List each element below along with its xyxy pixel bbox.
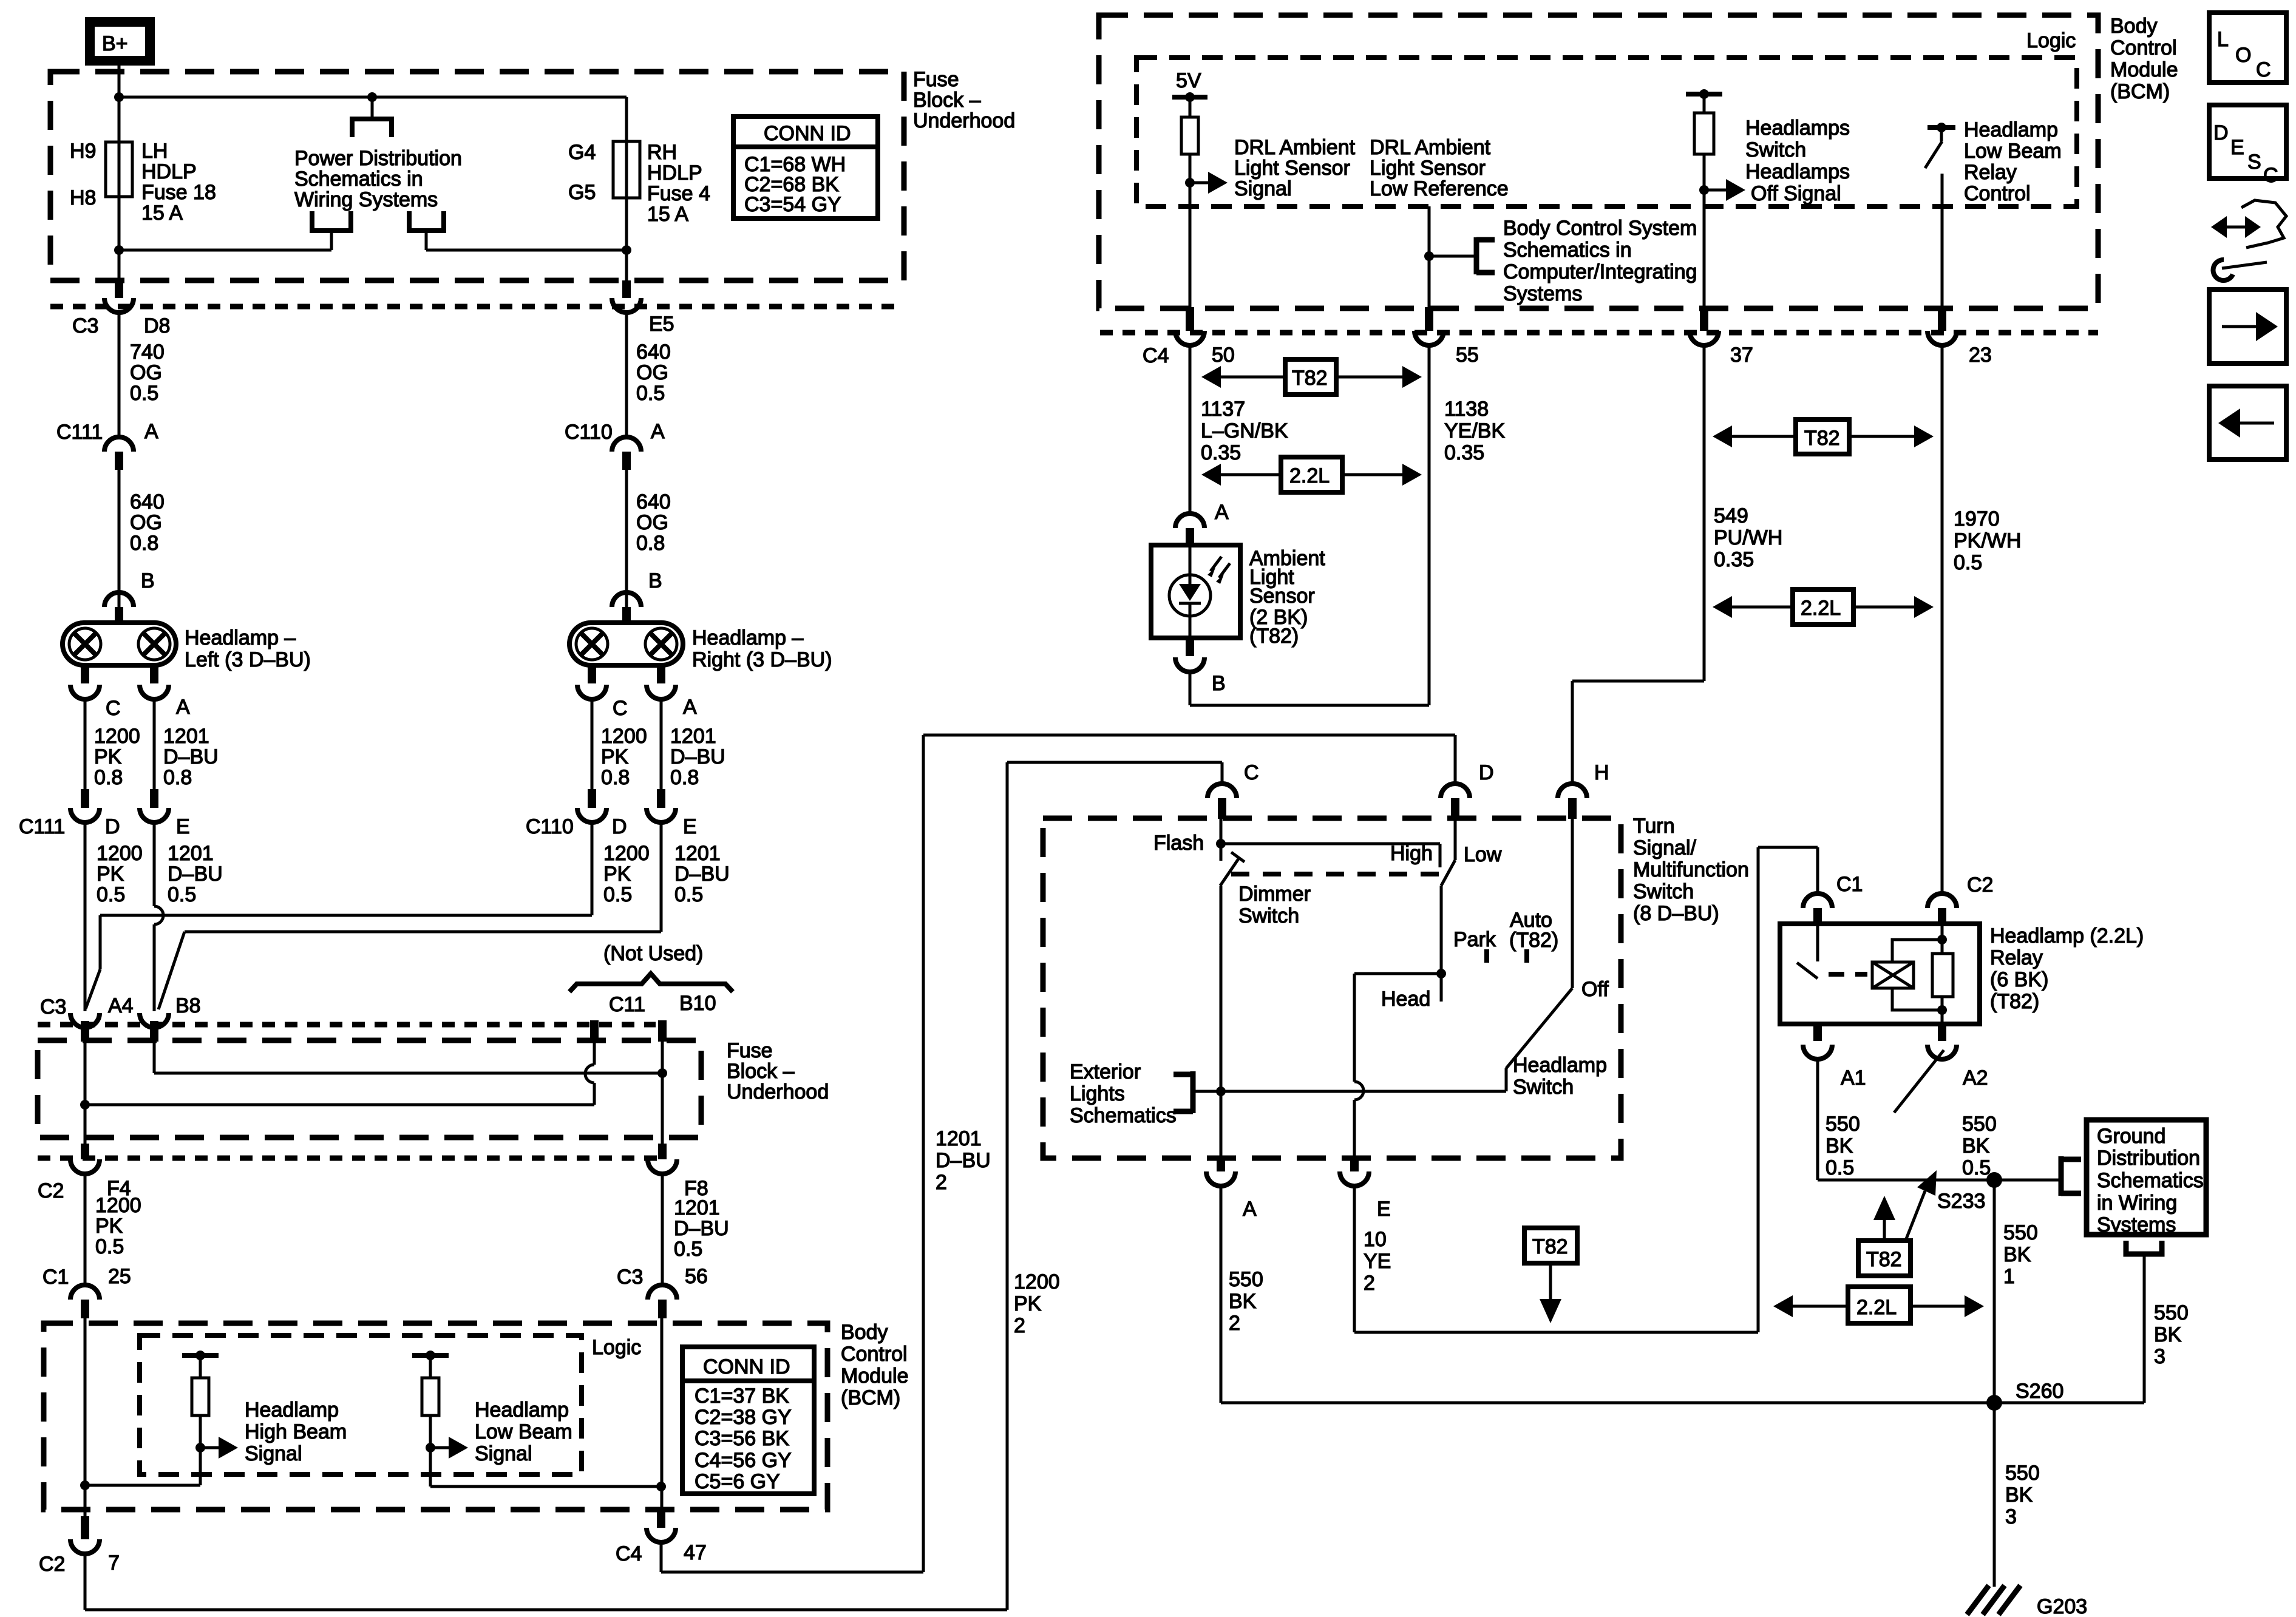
connector A2 bbox=[1927, 1024, 1988, 1090]
svg-text:YE: YE bbox=[1364, 1250, 1391, 1273]
node 56 wire tie bbox=[656, 1482, 666, 1491]
svg-text:Signal: Signal bbox=[245, 1442, 302, 1465]
node B10 stub bbox=[657, 1068, 667, 1078]
svg-text:1201: 1201 bbox=[163, 725, 209, 748]
linkage dimmer to selector bbox=[1231, 872, 1439, 876]
connector A1 bbox=[1803, 1024, 1866, 1090]
svg-text:A: A bbox=[1243, 1198, 1257, 1221]
T82 range symbol wires 37-23 bbox=[1713, 419, 1934, 454]
svg-text:Logic: Logic bbox=[2026, 29, 2076, 52]
svg-text:37: 37 bbox=[1730, 344, 1753, 367]
svg-text:(6 BK): (6 BK) bbox=[1990, 968, 2048, 991]
svg-text:C3=54 GY: C3=54 GY bbox=[744, 193, 841, 216]
svg-text:S260: S260 bbox=[2016, 1380, 2063, 1403]
wire 740 OG 0.5 bbox=[118, 313, 121, 438]
label headlamps switch headlamps off signal bbox=[1745, 117, 1850, 205]
wire exterior lights line to off blade bbox=[1221, 1090, 1506, 1093]
fuse block underhood box bbox=[50, 72, 904, 280]
svg-text:PK: PK bbox=[97, 863, 124, 886]
dotted connector face row C2 F4 F8 bbox=[38, 1156, 659, 1161]
connector C1 25 bbox=[42, 1265, 131, 1318]
svg-text:1970: 1970 bbox=[1954, 507, 2000, 531]
svg-text:Exterior: Exterior bbox=[1070, 1060, 1141, 1083]
headlamp left bbox=[63, 623, 176, 665]
svg-text:E: E bbox=[2230, 136, 2244, 159]
wire RH D down bbox=[591, 822, 594, 915]
label 549 PU/WH 0.35 bbox=[1714, 504, 1782, 571]
svg-text:C3: C3 bbox=[40, 995, 66, 1019]
connector C111 A bbox=[56, 420, 158, 470]
svg-text:0.35: 0.35 bbox=[1714, 548, 1754, 571]
power distribution bottom-left bracket bbox=[312, 211, 351, 250]
label 1201 D-BU 2 bbox=[936, 1127, 991, 1194]
svg-text:550: 550 bbox=[1962, 1113, 1997, 1136]
label 550 BK 1 bbox=[2003, 1221, 2038, 1288]
svg-text:D–BU: D–BU bbox=[168, 863, 223, 886]
svg-text:T82: T82 bbox=[1292, 367, 1328, 390]
connector C3 D8 bbox=[72, 280, 170, 337]
svg-text:Light Sensor: Light Sensor bbox=[1370, 157, 1486, 180]
svg-text:Signal: Signal bbox=[475, 1442, 532, 1465]
svg-text:Headlamp –: Headlamp – bbox=[185, 626, 296, 649]
2.2L range symbol bottom bbox=[1773, 1287, 1984, 1323]
svg-text:640: 640 bbox=[636, 341, 671, 364]
label headlamp right bbox=[692, 626, 832, 671]
wire B8 to B10 stub bbox=[154, 1042, 662, 1073]
wire RH E down bbox=[660, 822, 663, 932]
svg-text:1: 1 bbox=[2003, 1265, 2015, 1288]
svg-text:Control: Control bbox=[2110, 36, 2177, 59]
label 10 YE 2 bbox=[1364, 1228, 1391, 1295]
svg-text:0.35: 0.35 bbox=[1444, 441, 1484, 464]
svg-text:Low Beam: Low Beam bbox=[1964, 140, 2062, 163]
relay linkage dashes bbox=[1829, 972, 1867, 977]
svg-text:1201: 1201 bbox=[936, 1127, 982, 1150]
connector E bbox=[1340, 1158, 1391, 1221]
svg-text:Body Control System: Body Control System bbox=[1503, 217, 1697, 240]
park contact tick bbox=[1453, 928, 1496, 963]
svg-text:Block –: Block – bbox=[913, 89, 981, 112]
svg-text:A1: A1 bbox=[1841, 1066, 1866, 1090]
svg-text:740: 740 bbox=[130, 341, 165, 364]
wire 640 OG 0.5 right bbox=[625, 313, 628, 438]
svg-text:Headlamp: Headlamp bbox=[245, 1398, 339, 1422]
svg-text:0.5: 0.5 bbox=[168, 883, 196, 906]
wire 1200 PK 0.5 to C1 25 bbox=[84, 1174, 87, 1286]
connector F8 bbox=[648, 1144, 708, 1200]
head contact stub bbox=[1381, 974, 1441, 1011]
dotted connector face row BCM top bbox=[1100, 330, 2098, 336]
svg-text:PK/WH: PK/WH bbox=[1954, 529, 2021, 552]
connector 55 bbox=[1415, 307, 1479, 367]
connector C4 47 bbox=[616, 1509, 707, 1565]
wires headlamp left down bbox=[84, 699, 87, 789]
svg-text:Computer/Integrating: Computer/Integrating bbox=[1503, 260, 1697, 283]
low blade from D bbox=[1441, 819, 1502, 974]
wire 1970 down to relay C2 bbox=[1941, 345, 1944, 893]
wire top bus bbox=[119, 96, 627, 99]
svg-text:E: E bbox=[176, 815, 190, 838]
labels C 1200 PK 0.8 / A 1201 D-BU 0.8 right bbox=[601, 696, 725, 789]
svg-text:Module: Module bbox=[841, 1364, 909, 1388]
svg-text:550: 550 bbox=[2005, 1462, 2040, 1485]
svg-text:D: D bbox=[612, 815, 627, 838]
relay contact and blade bbox=[1797, 924, 1818, 978]
svg-text:C2=38 GY: C2=38 GY bbox=[695, 1406, 792, 1429]
svg-text:HDLP: HDLP bbox=[141, 160, 197, 183]
svg-text:(BCM): (BCM) bbox=[2110, 80, 2170, 103]
label Body Control Module BCM bottom bbox=[841, 1321, 909, 1409]
svg-text:0.5: 0.5 bbox=[1962, 1156, 1991, 1179]
svg-text:PK: PK bbox=[1014, 1292, 1042, 1315]
svg-text:1201: 1201 bbox=[674, 1196, 720, 1219]
svg-text:Schematics: Schematics bbox=[1070, 1104, 1177, 1127]
svg-text:C: C bbox=[2256, 58, 2271, 81]
resistor low beam signal bbox=[412, 1351, 468, 1486]
wire 1200 PK 2 bottom run bbox=[85, 762, 1222, 1610]
svg-text:Headlamp: Headlamp bbox=[1513, 1054, 1607, 1077]
svg-text:50: 50 bbox=[1212, 344, 1235, 367]
ground G203 bbox=[1967, 1585, 2087, 1617]
label ambient light sensor bbox=[1249, 547, 1325, 648]
svg-text:D–BU: D–BU bbox=[936, 1149, 991, 1172]
connector C110 A right bbox=[565, 420, 665, 470]
svg-text:A: A bbox=[1215, 501, 1229, 524]
svg-text:High Beam: High Beam bbox=[245, 1420, 347, 1443]
svg-text:E: E bbox=[1377, 1198, 1391, 1221]
svg-text:C111: C111 bbox=[56, 421, 103, 444]
svg-text:1200: 1200 bbox=[97, 842, 143, 865]
svg-text:Logic: Logic bbox=[592, 1336, 641, 1359]
svg-text:2: 2 bbox=[1229, 1312, 1240, 1335]
svg-text:Off Signal: Off Signal bbox=[1751, 182, 1841, 205]
flash contact and node bbox=[1153, 819, 1226, 861]
svg-text:Wiring Systems: Wiring Systems bbox=[294, 188, 438, 211]
svg-text:OG: OG bbox=[130, 511, 162, 534]
svg-text:C4: C4 bbox=[1143, 344, 1169, 367]
svg-text:Right (3 D–BU): Right (3 D–BU) bbox=[692, 648, 832, 671]
svg-text:2.2L: 2.2L bbox=[1289, 464, 1330, 487]
svg-text:PK: PK bbox=[601, 745, 629, 768]
svg-text:Switch: Switch bbox=[1513, 1076, 1574, 1099]
label exterior lights schematics bbox=[1070, 1060, 1177, 1127]
svg-text:C1: C1 bbox=[42, 1266, 69, 1289]
connector A ambient light sensor bbox=[1175, 501, 1229, 545]
svg-text:1201: 1201 bbox=[674, 842, 721, 865]
svg-text:Distribution: Distribution bbox=[2097, 1147, 2200, 1170]
svg-text:47: 47 bbox=[684, 1541, 707, 1564]
resistor DRL ambient light sensor signal bbox=[1181, 97, 1228, 307]
wire A1 down to S233 run bbox=[1818, 1059, 1994, 1180]
fuse RH HDLP Fuse 4 15A bbox=[613, 141, 640, 198]
svg-text:BK: BK bbox=[2005, 1483, 2033, 1507]
label headlamp high beam signal bbox=[245, 1398, 347, 1465]
wire lower bus left bbox=[119, 249, 331, 252]
svg-text:Multifunction: Multifunction bbox=[1633, 858, 1749, 881]
connector 37 bbox=[1690, 307, 1753, 367]
svg-text:1201: 1201 bbox=[670, 725, 716, 748]
svg-text:C11: C11 bbox=[609, 993, 645, 1016]
svg-text:(T82): (T82) bbox=[1990, 990, 2039, 1013]
svg-text:G203: G203 bbox=[2037, 1595, 2087, 1617]
svg-text:Sensor: Sensor bbox=[1249, 585, 1315, 608]
svg-text:Switch: Switch bbox=[1238, 904, 1299, 927]
icon LOC box bbox=[2209, 13, 2286, 83]
node A4 net bbox=[80, 1100, 90, 1110]
label power distribution bbox=[294, 147, 462, 211]
label headlamp switch bbox=[1513, 1054, 1607, 1099]
icon DESC box bbox=[2209, 105, 2286, 187]
svg-text:YE/BK: YE/BK bbox=[1444, 419, 1505, 442]
svg-text:PU/WH: PU/WH bbox=[1714, 526, 1782, 549]
svg-text:C1: C1 bbox=[1836, 873, 1863, 896]
svg-text:Schematics in: Schematics in bbox=[1503, 239, 1632, 262]
svg-text:Signal/: Signal/ bbox=[1633, 836, 1697, 859]
svg-text:Fuse: Fuse bbox=[727, 1039, 773, 1062]
svg-text:Relay: Relay bbox=[1964, 161, 2017, 184]
svg-text:PK: PK bbox=[95, 1215, 123, 1238]
bracket body control system schematics bbox=[1429, 237, 1495, 274]
wire lower bus right bbox=[426, 249, 627, 252]
labels 1200 PK 0.5 / 1201 D-BU 0.5 left bbox=[97, 842, 223, 906]
svg-text:B+: B+ bbox=[102, 32, 128, 55]
wire D feed drop bbox=[1454, 735, 1457, 784]
label 1970 PK/WH 0.5 bbox=[1954, 507, 2021, 574]
connector C110 D E row bbox=[526, 789, 697, 838]
relay resistor bbox=[1932, 924, 1953, 1024]
svg-text:PK: PK bbox=[94, 745, 122, 768]
svg-text:D–BU: D–BU bbox=[674, 863, 730, 886]
svg-text:1137: 1137 bbox=[1201, 398, 1245, 421]
svg-text:0.5: 0.5 bbox=[1954, 551, 1982, 574]
svg-text:Headlamp: Headlamp bbox=[475, 1398, 569, 1422]
svg-text:D–BU: D–BU bbox=[674, 1217, 729, 1240]
label headlamp left bbox=[185, 626, 311, 671]
node low reference tee bbox=[1424, 251, 1434, 261]
svg-text:Head: Head bbox=[1381, 988, 1430, 1011]
svg-text:C2: C2 bbox=[1967, 873, 1993, 897]
svg-text:C: C bbox=[613, 697, 628, 720]
svg-text:PK: PK bbox=[603, 863, 631, 886]
svg-text:OG: OG bbox=[636, 511, 668, 534]
BCM top-right dashed box bbox=[1099, 15, 2098, 308]
label 550 BK 3 right bbox=[2154, 1301, 2189, 1368]
label Body Control Module BCM top bbox=[2110, 15, 2178, 103]
svg-text:B10: B10 bbox=[679, 992, 716, 1015]
svg-text:10: 10 bbox=[1364, 1228, 1387, 1251]
svg-text:T82: T82 bbox=[1532, 1235, 1568, 1258]
connector C2 relay bbox=[1927, 873, 1993, 924]
wire 56 inside BCM bbox=[661, 1318, 664, 1510]
svg-text:C111: C111 bbox=[19, 815, 65, 838]
svg-text:(T82): (T82) bbox=[1509, 929, 1558, 952]
label 550 BK 0.5 A1 bbox=[1826, 1113, 1860, 1179]
connector E5 bbox=[612, 280, 674, 336]
svg-text:2: 2 bbox=[936, 1171, 947, 1194]
svg-text:Turn: Turn bbox=[1633, 815, 1675, 838]
svg-text:B: B bbox=[1212, 672, 1226, 695]
svg-text:HDLP: HDLP bbox=[647, 161, 702, 185]
svg-text:High: High bbox=[1390, 842, 1433, 865]
connector B left headlamp bbox=[104, 569, 155, 625]
wire dimmer pole A down bbox=[1220, 886, 1223, 1158]
(Not Used) brace and stubs C11 B10 bbox=[569, 942, 733, 1042]
bracket ground distribution bbox=[2061, 1156, 2081, 1196]
node high beam tie bbox=[80, 1480, 90, 1490]
label headlamp low beam relay control bbox=[1964, 118, 2062, 205]
wire E left down with hop over L1 bbox=[154, 822, 163, 1011]
svg-text:O: O bbox=[2235, 44, 2251, 67]
wire L2 from RH E to B8 bbox=[158, 932, 661, 1009]
svg-text:BK: BK bbox=[2003, 1243, 2031, 1266]
wire 550 BK 3 to ground bbox=[1993, 1403, 1996, 1587]
label 550 BK 3 bbox=[2005, 1462, 2040, 1528]
wire F8 1201 D-BU 0.5 to C3 56 bbox=[661, 1174, 664, 1286]
svg-text:H9: H9 bbox=[70, 140, 96, 163]
label 1200 PK 2 bbox=[1014, 1270, 1060, 1337]
svg-text:0.8: 0.8 bbox=[601, 766, 630, 789]
svg-text:0.5: 0.5 bbox=[636, 382, 665, 405]
svg-text:LH: LH bbox=[141, 140, 168, 163]
inner logic dashed box bottom-left bbox=[140, 1335, 582, 1474]
svg-text:0.5: 0.5 bbox=[95, 1235, 124, 1258]
svg-text:CONN ID: CONN ID bbox=[764, 122, 851, 145]
svg-text:BK: BK bbox=[2154, 1323, 2182, 1346]
svg-text:G4: G4 bbox=[568, 141, 596, 164]
wire 640 OG 0.8 right bbox=[625, 470, 628, 607]
svg-text:25: 25 bbox=[108, 1265, 131, 1288]
svg-text:C1=37 BK: C1=37 BK bbox=[695, 1385, 789, 1408]
auto T82 contact tick bbox=[1509, 909, 1558, 963]
connector C2 7 bbox=[39, 1516, 120, 1576]
svg-text:C: C bbox=[1244, 761, 1259, 784]
svg-text:B8: B8 bbox=[175, 994, 201, 1017]
inner logic dashed box top-right bbox=[1136, 58, 2077, 206]
svg-text:Headlamps: Headlamps bbox=[1745, 117, 1850, 140]
relay coil bbox=[1872, 940, 1942, 1010]
svg-text:7: 7 bbox=[108, 1551, 120, 1575]
battery terminal B+ bbox=[90, 22, 150, 61]
svg-text:Fuse 4: Fuse 4 bbox=[647, 182, 710, 205]
connector 23 bbox=[1927, 307, 1992, 367]
svg-text:L–GN/BK: L–GN/BK bbox=[1201, 419, 1288, 442]
svg-text:CONN ID: CONN ID bbox=[703, 1355, 790, 1378]
connector H bbox=[1558, 761, 1609, 819]
svg-text:BK: BK bbox=[1826, 1134, 1853, 1158]
svg-text:A2: A2 bbox=[1963, 1066, 1988, 1090]
svg-text:Block –: Block – bbox=[727, 1060, 795, 1083]
icon wiring repair bbox=[2211, 200, 2286, 280]
svg-text:DRL Ambient: DRL Ambient bbox=[1234, 136, 1356, 159]
headlamp left pins C and A bbox=[70, 665, 169, 699]
svg-text:D: D bbox=[105, 815, 120, 838]
resistor high beam signal bbox=[182, 1351, 238, 1485]
svg-text:E5: E5 bbox=[649, 313, 674, 336]
svg-text:A: A bbox=[683, 696, 697, 719]
fuse LH HDLP Fuse 18 15A bbox=[106, 142, 132, 197]
dotted connector face row A4 B8 bbox=[38, 1022, 656, 1028]
svg-text:3: 3 bbox=[2005, 1505, 2017, 1528]
svg-text:Body: Body bbox=[2110, 15, 2158, 38]
svg-text:B: B bbox=[141, 569, 155, 592]
svg-text:1201: 1201 bbox=[168, 842, 214, 865]
svg-text:C2: C2 bbox=[38, 1179, 64, 1202]
svg-text:55: 55 bbox=[1456, 344, 1479, 367]
wire H feed drop bbox=[1571, 681, 1574, 784]
5V supply bbox=[1172, 69, 1207, 102]
label 1137 L-GN/BK 0.35 bbox=[1201, 398, 1288, 464]
svg-text:0.5: 0.5 bbox=[674, 1238, 702, 1261]
wire sensor B loop to 55 bbox=[1190, 345, 1429, 705]
svg-text:640: 640 bbox=[130, 490, 165, 514]
resistor headlamps switch off signal bbox=[1686, 89, 1745, 307]
svg-text:2.2L: 2.2L bbox=[1801, 597, 1841, 620]
wire L1 from RH D to A4 bbox=[86, 915, 592, 1009]
svg-text:3: 3 bbox=[2154, 1345, 2165, 1368]
svg-text:Low Beam: Low Beam bbox=[475, 1420, 572, 1443]
svg-text:BK: BK bbox=[1229, 1290, 1257, 1313]
ground distribution schematics box bbox=[2087, 1120, 2206, 1236]
svg-text:Low: Low bbox=[1464, 843, 1502, 866]
svg-text:Fuse 18: Fuse 18 bbox=[141, 181, 216, 204]
svg-text:550: 550 bbox=[1229, 1268, 1263, 1291]
svg-text:C3: C3 bbox=[72, 314, 98, 337]
svg-text:(Not Used): (Not Used) bbox=[603, 942, 703, 965]
node S260 bbox=[1986, 1380, 2063, 1411]
wire fuse18 to lower bus bbox=[118, 66, 121, 282]
CONN ID table fuse block bbox=[733, 117, 878, 219]
svg-text:1200: 1200 bbox=[603, 842, 650, 865]
svg-text:550: 550 bbox=[1826, 1113, 1860, 1136]
ground box bottom bracket bbox=[1994, 1241, 2162, 1403]
node bus-left bbox=[114, 92, 124, 102]
svg-text:0.8: 0.8 bbox=[636, 532, 665, 555]
bracket exterior lights bbox=[1173, 1071, 1221, 1113]
label body control system schematics bbox=[1503, 217, 1697, 305]
svg-text:C3=56 BK: C3=56 BK bbox=[695, 1427, 789, 1450]
svg-text:0.5: 0.5 bbox=[603, 883, 632, 906]
wire 1201 D-BU 2 run bbox=[661, 735, 1455, 1572]
T82 pointer below switch bbox=[1524, 1228, 1577, 1323]
svg-text:Flash: Flash bbox=[1153, 832, 1204, 855]
node head tee bbox=[1436, 969, 1446, 978]
svg-text:0.8: 0.8 bbox=[670, 766, 699, 789]
off blade headlamp switch bbox=[1506, 819, 1609, 1091]
svg-text:D–BU: D–BU bbox=[670, 745, 725, 768]
svg-text:A4: A4 bbox=[108, 994, 134, 1017]
wire B+ bus to fuse4 bbox=[625, 97, 628, 141]
connector C2 F4 bbox=[38, 1144, 131, 1202]
svg-text:Switch: Switch bbox=[1633, 880, 1694, 903]
svg-text:0.8: 0.8 bbox=[163, 766, 192, 789]
svg-text:Headlamp: Headlamp bbox=[1964, 118, 2058, 141]
svg-text:0.5: 0.5 bbox=[130, 382, 158, 405]
svg-text:Body: Body bbox=[841, 1321, 888, 1344]
svg-text:BK: BK bbox=[1962, 1134, 1990, 1158]
svg-text:C: C bbox=[2263, 164, 2278, 187]
wire low beam tie to 56 wire bbox=[430, 1485, 661, 1488]
svg-text:OG: OG bbox=[130, 361, 162, 384]
CONN ID table BCM bbox=[682, 1347, 814, 1494]
2.2L range symbol wires 50-55 bbox=[1201, 457, 1422, 492]
wire D left down to A4 bbox=[84, 822, 87, 1011]
wire high beam resistor tie bbox=[85, 1484, 200, 1487]
svg-text:640: 640 bbox=[636, 490, 671, 514]
svg-text:T82: T82 bbox=[1804, 427, 1840, 450]
icon arrow left box bbox=[2209, 386, 2286, 459]
headlamp low beam relay control switch bbox=[1925, 123, 1955, 307]
wire low reference 55 bbox=[1428, 206, 1431, 307]
